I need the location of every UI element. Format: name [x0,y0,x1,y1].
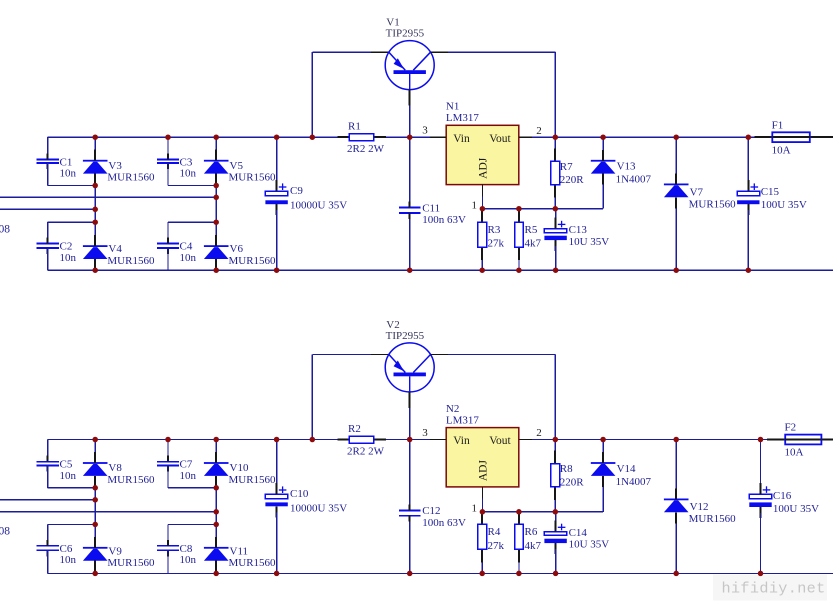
resistor R1 2R2 2W [337,121,386,155]
svg-text:F1: F1 [772,120,784,132]
op-amp regulator N2 LM317 [446,403,519,487]
wire mid column left [94,500,96,525]
fuse F2 10A [767,422,833,459]
svg-text:R7: R7 [560,161,573,173]
junction AC node left [92,207,98,213]
wire ADJ pin lead [481,185,483,197]
wire V6 cathode lead [215,222,217,246]
junction V8 anode node [92,485,98,491]
wire C8 bottom stub [167,550,169,573]
resistor R8 220R [551,451,585,500]
svg-text:27k: 27k [488,540,505,552]
wire C3 bottom stub [167,163,169,185]
junction V12 bottom [673,571,679,577]
junction C16 top [758,437,764,443]
svg-text:C9: C9 [290,185,303,197]
svg-text:10A: 10A [772,144,791,156]
wire C14 top lead [555,512,557,526]
wire C7 to V10 [168,487,216,489]
wire ADJ pin drop [481,196,483,208]
capacitor C9 electrolytic [265,180,347,215]
junction R5 top [516,206,522,212]
junction C15 top [746,134,752,140]
wire C8 left stub [167,524,169,545]
wire output rail [555,136,754,138]
wire R3 bottom [481,260,483,270]
svg-text:TIP2955: TIP2955 [386,28,425,40]
svg-text:LM317: LM317 [446,112,480,124]
transistor V2 TIP2955 [385,319,434,408]
capacitor C10 electrolytic [265,483,347,517]
wire C2 left stub [47,222,49,243]
wire C7 bottom stub [167,465,169,487]
capacitor C11 [399,202,466,227]
svg-text:C12: C12 [422,505,440,517]
svg-text:10000U 35V: 10000U 35V [290,199,347,211]
wire R7 top stub [554,137,556,148]
wire Vout to output node [532,439,555,441]
wire C12 top lead [409,440,411,505]
svg-text:V9: V9 [108,546,122,558]
svg-text:V13: V13 [617,161,636,173]
svg-text:V14: V14 [617,463,636,475]
svg-text:3: 3 [422,124,428,136]
wire V1 collector drop [554,52,556,137]
junction V1 base node [407,134,413,140]
wire ADJ pin lead [481,487,483,499]
resistor R6 4k7 [515,511,542,562]
svg-text:1: 1 [472,199,478,211]
junction AC node right [213,195,219,201]
junction V11 anode-bottom [213,571,219,577]
svg-text:V11: V11 [230,546,249,558]
wire V13 anode drop [602,185,604,209]
wire AC input b bottom [0,511,216,513]
wire C4 bottom stub [167,248,169,270]
wire ADJ bus [482,208,603,210]
capacitor C14 electrolytic [544,521,609,555]
wire C1 top stub [47,137,49,159]
svg-text:10U 35V: 10U 35V [569,236,610,248]
svg-text:100n 63V: 100n 63V [422,214,466,226]
wire C6 bottom stub [47,550,49,573]
svg-text:R3: R3 [488,224,501,236]
junction V2 base node [407,437,413,443]
wire V11 cathode lead [215,524,217,547]
wire Vin pin lead [430,136,446,138]
junction AC node left [92,497,98,503]
capacitor C4 [157,238,197,264]
svg-text:MUR1560: MUR1560 [107,557,155,569]
svg-text:Vout: Vout [489,133,511,145]
wire V10 cathode lead [215,440,217,453]
wire C14 bottom lead [555,549,557,573]
diode V8 MUR1560 [83,452,155,487]
svg-text:V4: V4 [108,243,122,255]
wire V4 cathode lead [94,222,96,246]
svg-text:100U 35V: 100U 35V [773,503,819,515]
junction R5 bottom [516,267,522,273]
wire ADJ bus [482,511,603,513]
wire V2 collector top [448,354,555,356]
junction C16 bottom [758,571,764,577]
junction V10 cathode-top [213,437,219,443]
svg-text:MUR1560: MUR1560 [689,513,737,525]
wire C5 bottom stub [47,465,49,487]
diode V13 1N4007 [591,150,652,186]
wire ADJ pin drop [481,499,483,512]
wire V9 cathode lead [94,524,96,547]
wire R8 bottom stub [554,500,556,512]
capacitor C5 [37,456,77,482]
svg-text:R2: R2 [348,423,361,435]
wire C6 top stub [48,523,95,525]
svg-text:MUR1560: MUR1560 [689,199,737,211]
junction R6 top [516,509,522,515]
wire mid column right [215,488,217,525]
svg-text:R4: R4 [488,526,501,538]
junction C9 bottom [274,267,280,273]
capacitor C3 [157,153,197,179]
wire C1 to V3 [48,185,95,187]
wire C4 left stub [167,222,169,243]
wire C13 bottom lead [555,246,557,270]
svg-text:N1: N1 [446,101,459,113]
wire C5 top stub [47,440,49,462]
svg-text:MUR1560: MUR1560 [229,474,277,486]
wire V2 emitter top [312,354,371,356]
svg-text:LM317: LM317 [446,415,480,427]
wire V7 cathode lead [675,137,677,173]
wire output rail [555,439,767,441]
wire AC input a top [0,196,216,198]
wire R7 bottom stub [554,198,556,209]
svg-text:10n: 10n [180,470,197,482]
junction ADJ node [480,509,486,515]
svg-text:10n: 10n [180,168,197,180]
wire V14 anode drop [602,487,604,512]
fuse F1 10A [754,120,833,157]
wire V1 emitter pin [371,51,389,53]
svg-text:C14: C14 [569,527,588,539]
wire C1 bottom stub [47,163,49,185]
wire Vout pin lead [519,439,532,441]
svg-text:R8: R8 [560,463,573,475]
junction C13 top [553,206,559,212]
junction base node [310,134,316,140]
junction ADJ node [480,206,486,212]
svg-text:10U 35V: 10U 35V [569,539,610,551]
svg-text:MUR1560: MUR1560 [107,474,155,486]
junction V7 top [673,134,679,140]
svg-text:4k7: 4k7 [525,540,542,552]
svg-text:10n: 10n [60,252,77,264]
junction C2 stub node [92,219,98,225]
junction C9 top [274,134,280,140]
junction C8 stub node [213,522,219,528]
wire C2 bottom stub [47,248,49,270]
junction C12 bottom [407,571,413,577]
junction C10 top [274,437,280,443]
svg-text:10n: 10n [180,252,197,264]
junction V13 top [600,134,606,140]
wire C10 top lead [276,440,278,489]
svg-text:10n: 10n [60,168,77,180]
junction C7 top node [165,437,171,443]
wire Vout to output node [532,136,555,138]
wire +rail bottom (top bus) [48,439,768,441]
wire C2 top stub [48,221,95,223]
svg-text:ADJ: ADJ [478,157,490,179]
junction V7 bottom [673,267,679,273]
wire C4 top stub [168,221,216,223]
svg-text:C6: C6 [60,543,73,555]
capacitor C13 electrolytic [544,218,609,252]
watermark hifidiy.net [713,575,827,601]
junction R4 bottom [479,571,485,577]
svg-text:N2: N2 [446,403,459,415]
svg-text:10000U 35V: 10000U 35V [290,502,347,514]
svg-text:2R2 2W: 2R2 2W [347,143,385,155]
wire V12 cathode lead [675,440,677,489]
wire R8 top stub [554,440,556,451]
capacitor C16 electrolytic [749,483,819,518]
wire R4 bottom [481,562,483,573]
svg-text:C11: C11 [422,202,440,214]
wire V1 base to rail [409,106,411,138]
junction C11 bottom [407,267,413,273]
svg-text:TIP2955: TIP2955 [386,330,425,342]
wire C10 bottom lead [276,512,278,573]
svg-text:10n: 10n [60,470,77,482]
wire R6 bottom [518,562,520,573]
wire V2 collector drop [554,355,556,440]
capacitor C1 [37,153,77,179]
resistor R7 220R [551,148,585,197]
wire C15 top lead [747,137,749,185]
wire V2 collector pin [430,354,448,356]
junction C13 bottom [553,267,559,273]
junction V10 anode node [213,485,219,491]
capacitor C6 [37,540,77,566]
wire V12 anode drop [675,523,677,573]
junction V12 top [673,437,679,443]
wire V13 cathode lead [602,137,604,150]
wire V1 collector top [448,51,555,53]
junction AC node right [213,509,219,515]
wire 0V rail bottom (bottom bus) [48,572,833,574]
junction V8 anode-top [92,437,98,443]
wire C5 to V8 [48,487,95,489]
junction C6 stub node [92,522,98,528]
wire Vin pin lead [430,439,446,441]
svg-text:ADJ: ADJ [478,460,490,482]
junction V3 anode-top [92,134,98,140]
junction base node [310,437,316,443]
wire C3 to V5 [168,185,216,187]
capacitor C2 [37,238,77,264]
wire V8 anode to AC node [94,488,96,500]
svg-text:2: 2 [536,125,542,137]
svg-text:100n 63V: 100n 63V [422,517,466,529]
svg-text:MUR1560: MUR1560 [229,255,277,267]
svg-text:Vout: Vout [489,435,511,447]
wire V7 anode drop [675,208,677,270]
wire V1 emitter top [312,51,371,53]
diode V7 MUR1560 [664,173,736,210]
wire V1 collector pin [430,51,448,53]
wire C15 bottom lead [747,210,749,270]
junction output node 2 [553,134,559,140]
svg-text:2R2 2W: 2R2 2W [347,445,385,457]
junction V5 cathode-top [213,134,219,140]
wire V8 cathode lead [94,440,96,453]
svg-text:4k7: 4k7 [525,238,542,250]
svg-text:2: 2 [536,427,542,439]
svg-text:V7: V7 [690,187,704,199]
junction C3 top node [165,134,171,140]
svg-text:1: 1 [472,502,478,514]
diode V12 MUR1560 [664,488,736,524]
wire V2 base to rail [409,408,411,440]
junction C14 bottom [553,571,559,577]
svg-text:C4: C4 [180,241,193,253]
wire C16 top lead [760,440,762,489]
svg-text:08: 08 [0,525,10,537]
capacitor C7 [157,456,197,482]
wire C9 bottom lead [276,210,278,270]
junction V5 anode node [213,183,219,189]
svg-text:V8: V8 [108,462,122,474]
op-amp regulator N1 LM317 [446,101,519,185]
wire +rail top (top bus) [48,136,755,138]
junction C14 top [553,509,559,515]
svg-text:V3: V3 [108,160,122,172]
junction V6 anode-bottom [213,267,219,273]
svg-text:MUR1560: MUR1560 [229,172,277,184]
svg-text:C2: C2 [60,241,73,253]
svg-text:F2: F2 [785,422,797,434]
svg-text:C13: C13 [569,224,588,236]
resistor R5 4k7 [515,209,542,260]
svg-text:MUR1560: MUR1560 [229,557,277,569]
wire C13 top lead [555,209,557,223]
svg-text:Vin: Vin [453,133,470,145]
capacitor C8 [157,540,197,566]
wire AC input b top [0,208,95,210]
svg-text:R6: R6 [525,526,538,538]
junction output node 2 [553,437,559,443]
wire V2 emitter pin [371,354,389,356]
transistor V1 TIP2955 [385,17,434,106]
svg-text:220R: 220R [560,476,585,488]
svg-text:C10: C10 [290,488,309,500]
diode V5 MUR1560 [204,150,276,185]
svg-text:C15: C15 [761,186,780,198]
wire AC input a bottom [0,499,95,501]
wire C7 top stub [167,440,169,462]
wire riser to V1 emitter [311,52,313,137]
diode V3 MUR1560 [83,150,155,185]
junction C4 stub node [213,219,219,225]
wire mid column left [94,209,96,222]
wire 0V rail top (bottom bus) [48,269,833,271]
junction V3 anode node [92,183,98,189]
svg-text:27k: 27k [488,238,505,250]
svg-text:Vin: Vin [453,435,470,447]
svg-text:V5: V5 [230,160,244,172]
wire riser to V2 emitter [311,355,313,440]
diode V4 MUR1560 [83,235,155,270]
diode V10 MUR1560 [204,452,276,487]
wire C12 bottom lead [409,522,411,574]
junction V9 anode-bottom [92,571,98,577]
wire C9 top lead [276,137,278,185]
diode V6 MUR1560 [204,235,276,270]
svg-text:V6: V6 [230,243,244,255]
svg-text:MUR1560: MUR1560 [107,255,155,267]
wire C16 bottom lead [760,513,762,573]
svg-text:hifidiy.net: hifidiy.net [722,579,826,597]
junction C10 bottom [274,571,280,577]
wire Vout pin lead [519,136,532,138]
svg-text:100U 35V: 100U 35V [761,199,807,211]
junction R3 bottom [479,267,485,273]
svg-text:1N4007: 1N4007 [616,476,652,488]
wire C11 bottom lead [409,219,411,270]
diode V9 MUR1560 [83,537,155,572]
svg-text:10n: 10n [60,554,77,566]
svg-text:V12: V12 [690,501,709,513]
junction V14 top [600,437,606,443]
junction R6 bottom [516,571,522,577]
svg-text:1N4007: 1N4007 [616,174,652,186]
capacitor C15 electrolytic [737,180,807,215]
svg-text:08: 08 [0,223,10,235]
wire V3 anode to AC node [94,186,96,210]
svg-text:MUR1560: MUR1560 [107,172,155,184]
wire R5 bottom [518,260,520,270]
svg-text:C8: C8 [180,543,193,555]
wire mid column right [215,186,217,223]
resistor R3 27k [478,209,505,260]
wire V14 cathode lead [602,440,604,453]
svg-text:V10: V10 [230,462,249,474]
svg-text:220R: 220R [560,174,585,186]
svg-text:3: 3 [422,427,428,439]
svg-text:C16: C16 [773,490,792,502]
svg-text:10A: 10A [785,446,804,458]
svg-text:R5: R5 [525,224,538,236]
wire V5 cathode lead [215,137,217,150]
wire C6 left stub [47,524,49,545]
junction V4 anode-bottom [92,267,98,273]
wire V3 cathode lead [94,137,96,150]
junction C15 bottom [746,267,752,273]
resistor R2 2R2 2W [337,423,386,457]
resistor R4 27k [478,511,505,562]
wire C8 top stub [168,523,216,525]
svg-text:10n: 10n [180,554,197,566]
capacitor C12 [399,504,466,529]
wire C3 top stub [167,137,169,159]
diode V11 MUR1560 [204,537,276,572]
svg-text:R1: R1 [348,121,361,133]
wire C11 top lead [409,137,411,201]
diode V14 1N4007 [591,452,652,488]
